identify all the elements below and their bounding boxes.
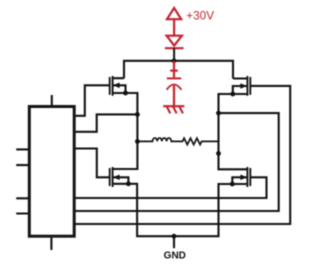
svg-text:+30V: +30V — [186, 8, 214, 22]
svg-text:GND: GND — [164, 251, 186, 262]
